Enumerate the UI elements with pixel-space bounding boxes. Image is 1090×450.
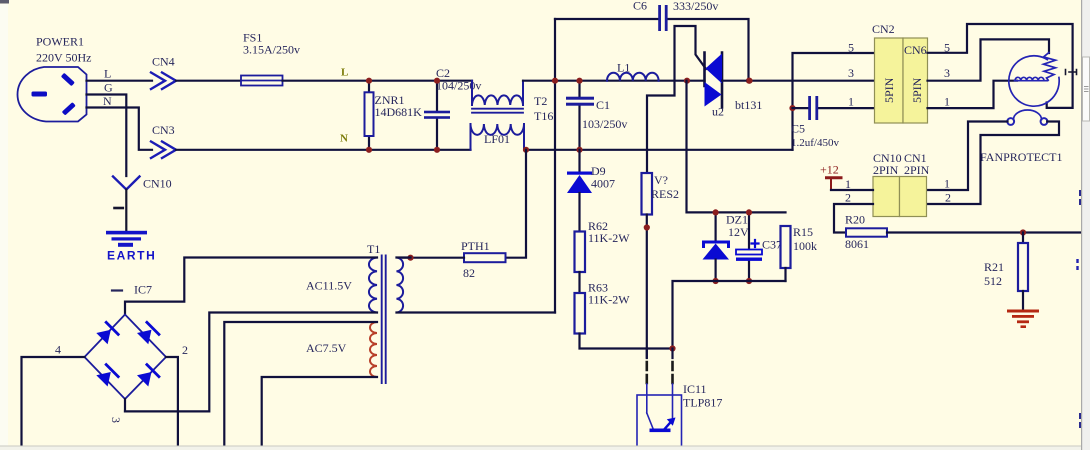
wire CN2 pin5 riser [793,53,875,150]
diode bottom-right [137,372,152,387]
junction L rail / C1 [576,78,582,84]
wire gate loop (C6 area to triac gate and to V? resistor) [647,26,706,173]
junction on V? wire [644,224,650,230]
resistor R62 [575,219,631,272]
svg-text:14D681K: 14D681K [375,105,423,119]
ground (signal, red) below R21 [1007,291,1039,328]
svg-text:T2: T2 [534,94,547,108]
svg-text:4: 4 [55,343,61,357]
connector CN1 2PIN [900,151,930,217]
motor M1 [1009,53,1059,107]
wire +12 to CN10 pin1 [831,189,873,191]
junction R21 top [1020,229,1026,235]
svg-text:C5: C5 [791,122,805,136]
svg-text:333/250v: 333/250v [673,0,718,13]
resistor R20 8061 [845,213,887,252]
svg-text:5PIN: 5PIN [882,77,896,103]
svg-text:12V: 12V [728,225,749,239]
svg-text:IC7: IC7 [134,283,152,297]
svg-text:1: 1 [944,177,950,191]
svg-text:1: 1 [848,95,854,109]
wire protector right to CN1 pin2 [927,122,1060,205]
svg-text:2PIN: 2PIN [873,163,899,177]
junction dot N/C2 [434,147,440,153]
capacitor C1 [566,81,627,150]
svg-text:EARTH: EARTH [107,249,156,263]
right scrollbar [1082,0,1090,450]
fuse FS1 [241,31,300,86]
wire CN10 to earth ground [125,190,127,232]
resistor PTH1 82 [461,239,506,280]
dashed wires into optocoupler [647,362,673,383]
varistor ZNR1 [365,81,423,150]
wire T1 secondary bottom to riser x555 [397,311,556,313]
connector CN2 5PIN [872,22,903,123]
wire L from CN4 to FS1 [176,80,241,82]
ground EARTH [106,231,156,263]
auxiliary winding AC7.5V (left lower, red) [370,322,377,377]
svg-text:TLP817: TLP817 [683,396,722,410]
svg-text:104/250v: 104/250v [436,79,481,93]
svg-text:1: 1 [944,95,950,109]
resistor R15 100k [781,225,818,281]
resistor R63 [575,281,631,334]
wire N branch down to PTH1 [506,150,527,258]
wire N rail from LF01 junction to C5 riser [526,149,793,151]
junction L rail / C6 riser [552,78,558,84]
svg-text:PTH1: PTH1 [461,239,490,253]
wire thin leads into IC11 [647,384,673,419]
secondary winding AC11.5V (right, blue) [397,258,404,313]
tick mark on earth wire [115,207,123,210]
wire V? to optocoupler [646,215,648,358]
svg-text:CN2: CN2 [872,22,895,36]
svg-text:L: L [341,67,348,79]
svg-text:POWER1: POWER1 [36,35,84,49]
svg-text:5: 5 [848,41,854,55]
wire node3 stub [124,399,126,411]
diode top-left [96,330,111,345]
junction N rail / C1 / D9 [576,147,582,153]
net tick marks on motor loop wire [1066,70,1077,75]
power plug POWER1 [18,35,92,122]
wire T1 primary top to IC7 [125,258,377,315]
junction bottom rail / opto right [669,345,675,351]
svg-text:CN6: CN6 [904,43,927,57]
svg-text:CN4: CN4 [152,55,175,69]
junction L rail / gate branch [684,78,690,84]
connector CN3 [151,123,176,158]
common-mode choke T2 LF01 [471,81,554,150]
svg-text:220V 50Hz: 220V 50Hz [36,51,91,65]
svg-text:IC11: IC11 [683,382,707,396]
svg-text:N: N [103,94,112,108]
svg-text:100k: 100k [793,239,817,253]
svg-text:V?: V? [654,173,668,187]
connector CN10 2PIN [873,151,902,217]
top-left window speck [0,0,9,4]
svg-text:3: 3 [848,66,854,80]
junction L rail / C6 right [746,78,752,84]
svg-text:11K-2W: 11K-2W [588,293,630,307]
wire R62 to R63 [578,272,580,293]
svg-text:L1: L1 [617,61,630,75]
wire N from plug to CN3 [87,108,153,150]
junction PTH1/T1 [407,255,413,261]
svg-text:4007: 4007 [591,177,615,191]
svg-text:3: 3 [109,417,123,423]
svg-text:L: L [104,67,111,81]
svg-text:3: 3 [944,66,950,80]
svg-text:512: 512 [984,274,1002,288]
wire triac branch down to DZ1 rail [687,81,786,213]
wire L from plug to CN4 [87,80,153,82]
wire CN6 pin3 to motor winding tap [928,39,1050,80]
wire CN6 pin1 to motor coil [928,81,1018,108]
bottom window band [0,446,1090,450]
wire protector left to CN1 pin1 [927,122,1008,191]
svg-text:2: 2 [182,343,188,357]
wire R20 to right edge [887,231,1090,233]
svg-text:11K-2W: 11K-2W [588,231,630,245]
connector CN6 5PIN [903,38,928,123]
capacitor C5 [791,96,875,149]
connector CN10 (earth pin) [113,177,172,191]
bridge rectifier IC7 [85,283,167,400]
core lines [382,256,386,384]
diode top-right [137,330,152,345]
svg-text:C1: C1 [596,98,610,112]
svg-text:R20: R20 [845,213,865,227]
svg-text:T1: T1 [367,242,380,256]
svg-text:C6: C6 [633,0,647,13]
svg-text:AC11.5V: AC11.5V [306,279,352,293]
svg-text:FANPROTECT1: FANPROTECT1 [980,150,1062,164]
junction dot N/ZNR1 [366,147,372,153]
wire G from plug to CN10 [87,95,127,177]
power +12 symbol [820,163,841,191]
wire DZ1 block bottom rail [673,281,786,349]
wire CN6 pin5 to motor loop [928,24,1073,108]
wire node2 to bottom edge [166,357,178,450]
svg-text:R15: R15 [793,225,813,239]
transformer T1 [306,242,403,383]
svg-text:C37: C37 [762,238,782,252]
inductor L1 [607,61,659,81]
svg-text:2: 2 [945,191,951,205]
zener diode DZ1 12V [703,212,750,281]
svg-text:8061: 8061 [845,237,869,251]
svg-text:1.2uf/450v: 1.2uf/450v [791,137,839,149]
svg-text:2PIN: 2PIN [904,163,930,177]
wire R63 to bottom rail [580,334,673,349]
wire C6 branch / T1 secondary riser (x=555) [554,19,556,313]
svg-text:CN3: CN3 [152,123,175,137]
svg-text:u2: u2 [712,105,724,119]
svg-text:82: 82 [463,266,475,280]
junction N/LF01/PTH1 [523,147,529,153]
thermal protector FANPROTECT1 [980,110,1062,164]
left white margin strip [0,4,8,446]
svg-text:bt131: bt131 [735,98,762,112]
diode D9 4007 [567,150,615,232]
wire N rail CN3 to LF01 [176,149,471,151]
capacitor C37 (electrolytic) [736,212,782,281]
junction dot L/ZNR1 [366,78,372,84]
wire node4 to bottom edge [22,357,85,450]
wire L rail FS1 to LF01 [283,80,473,82]
junction DZ1 bottom [713,278,719,284]
junction dot L/C2 [434,78,440,84]
capacitor C6 with loop wire [555,0,749,81]
svg-text:RES2: RES2 [651,187,679,201]
junction DZ1 top [713,209,719,215]
svg-text:G: G [104,81,113,95]
triac u2 bt131 [705,53,763,119]
wire T1 aux bottom to descender [262,377,377,450]
resistor R21 512 [984,233,1028,292]
connector CN4 [151,55,176,90]
svg-text:R21: R21 [984,260,1004,274]
svg-text:LF01: LF01 [484,132,510,146]
svg-text:+12: +12 [820,163,839,177]
svg-text:2: 2 [845,191,851,205]
wire L rail triac to CN2 [722,80,875,82]
junction C37 bottom [746,278,752,284]
wire opto stubs below rail [647,349,673,359]
svg-text:5PIN: 5PIN [910,77,924,103]
wire T1 secondary top to PTH1 junction [397,256,411,258]
svg-text:N: N [340,133,348,145]
junction C37 top [746,209,752,215]
diode bottom-left [96,372,111,387]
svg-text:T16: T16 [534,109,553,123]
wire CN10 pin2 to R20 [834,204,873,233]
svg-text:3.15A/250v: 3.15A/250v [243,43,300,57]
svg-text:103/250v: 103/250v [582,117,627,131]
capacitor C2 [424,66,481,150]
wire T1 primary bottom to node3 rail [125,313,377,412]
primary winding (left, blue) [369,258,377,313]
wire T1 aux top to descender [224,322,377,450]
junction triac right [746,78,752,84]
optocoupler IC11 TLP817 [637,382,722,450]
wire PTH1 to T1 secondary top [403,257,464,259]
junction C5 left [789,105,795,111]
svg-text:CN10: CN10 [143,177,172,191]
wire L rail from LF01 to triac [523,80,705,82]
resistor V? RES2 [642,173,680,215]
svg-text:AC7.5V: AC7.5V [306,341,347,355]
